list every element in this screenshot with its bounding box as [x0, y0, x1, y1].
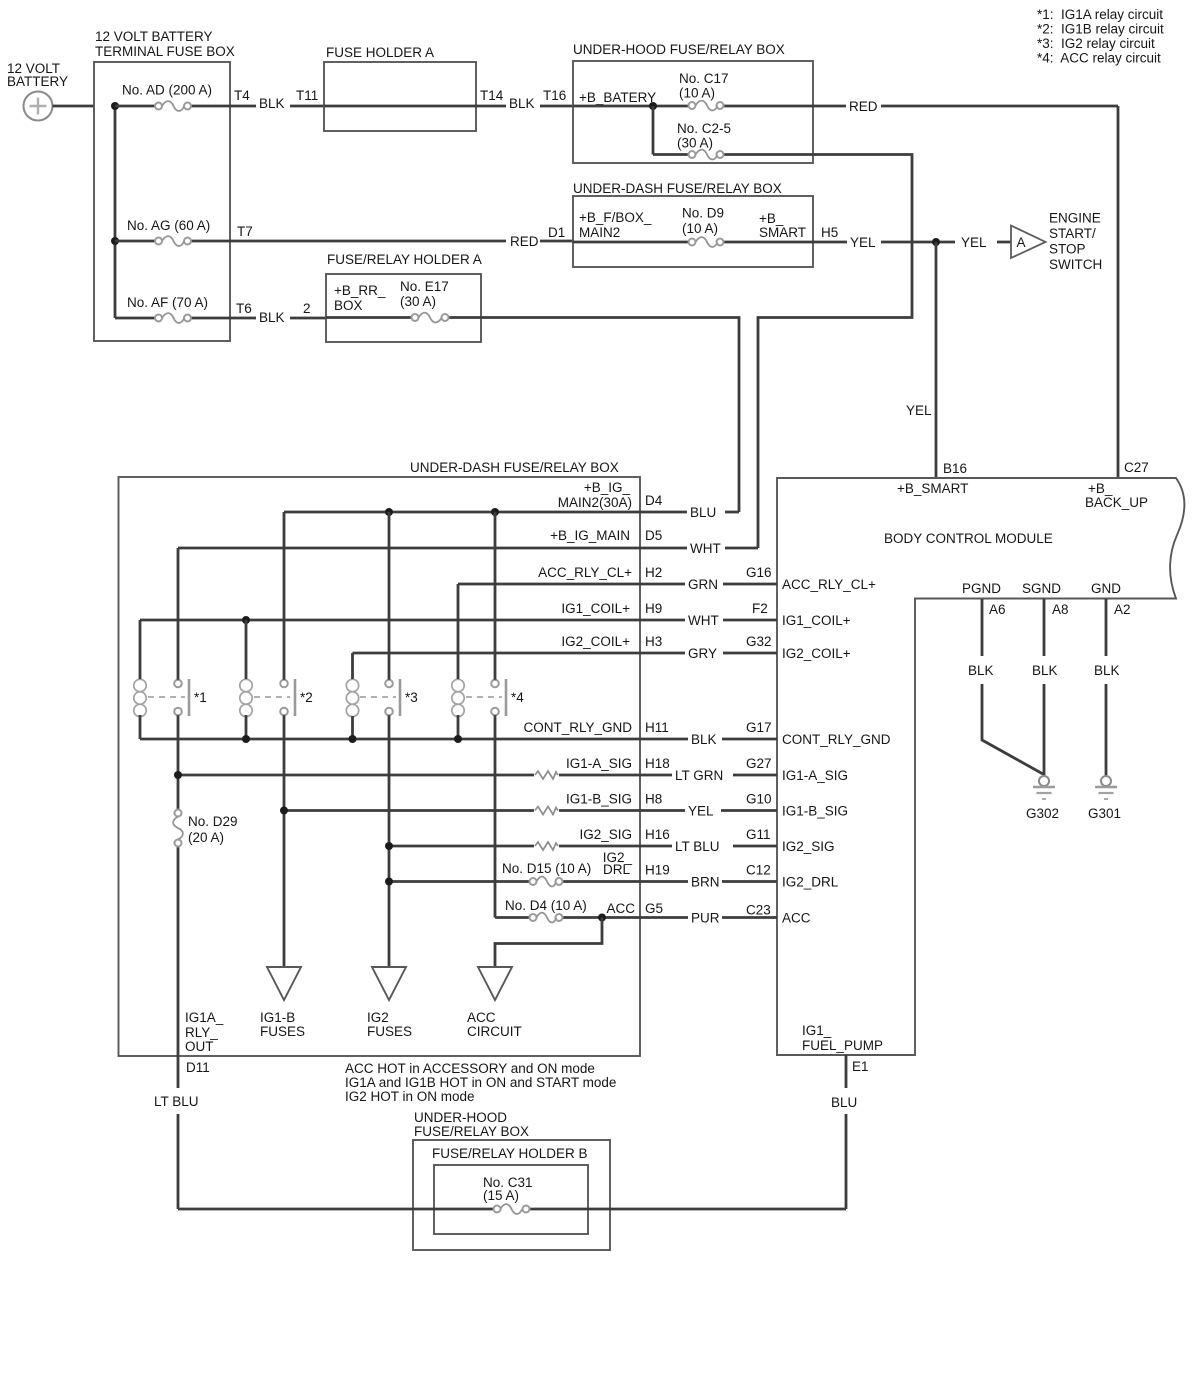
svg-text:D5: D5 [645, 528, 662, 543]
svg-text:GRY: GRY [688, 646, 717, 661]
wire relay2 switch bus [283, 512, 286, 967]
svg-text:IG1-B: IG1-B [260, 1010, 295, 1025]
svg-text:ACC: ACC [467, 1010, 496, 1025]
wire H3 row [353, 652, 778, 655]
wire H19 row [389, 880, 777, 883]
svg-text:B16: B16 [943, 461, 967, 476]
svg-text:BLU: BLU [831, 1095, 857, 1110]
svg-text:A8: A8 [1052, 602, 1069, 617]
net IG1-B FUSES label [260, 1010, 305, 1039]
fuse holder A box [324, 62, 476, 131]
svg-text:D11: D11 [186, 1060, 210, 1075]
node H8 relay2 bus [280, 807, 288, 815]
svg-text:CONT_RLY_GND: CONT_RLY_GND [782, 732, 891, 747]
svg-text:D4: D4 [645, 493, 663, 508]
fuse C17 value label [679, 71, 729, 101]
svg-text:YEL: YEL [688, 804, 714, 819]
wire D4 row [284, 511, 739, 514]
svg-text:IG2 HOT in ON mode: IG2 HOT in ON mode [345, 1089, 475, 1104]
svg-text:A2: A2 [1114, 602, 1131, 617]
svg-text:No. C2-5: No. C2-5 [677, 121, 731, 136]
svg-text:GRN: GRN [688, 577, 718, 592]
svg-text:T4: T4 [234, 88, 250, 103]
svg-text:CONT_RLY_GND: CONT_RLY_GND [523, 720, 632, 735]
svg-text:G5: G5 [645, 901, 663, 916]
svg-text:H18: H18 [645, 756, 670, 771]
legend note [1037, 7, 1164, 66]
relay *2 IG1B [240, 679, 313, 717]
svg-text:T7: T7 [237, 224, 253, 239]
wire T14 to T16 with BLK gap [476, 105, 573, 108]
wire E1 with BLU gap [845, 1055, 848, 1209]
under-dash fuse/relay box (main) [119, 477, 641, 1056]
resistor IG1-A_SIG [535, 771, 558, 779]
wire relay4 coil verticals [457, 584, 460, 739]
svg-text:*1: *1 [194, 690, 207, 705]
svg-text:H8: H8 [645, 792, 662, 807]
svg-text:(30 A): (30 A) [677, 136, 713, 151]
svg-text:A6: A6 [989, 602, 1006, 617]
svg-text:*4: *4 [511, 690, 524, 705]
svg-text:DRL: DRL [603, 862, 630, 877]
wire C2-5 output to D5 [758, 155, 912, 549]
svg-text:T16: T16 [543, 88, 566, 103]
svg-text:C23: C23 [746, 903, 771, 918]
svg-text:SWITCH: SWITCH [1049, 257, 1102, 272]
svg-text:T6: T6 [236, 301, 252, 316]
svg-text:FUSES: FUSES [367, 1024, 412, 1039]
svg-text:G302: G302 [1026, 806, 1059, 821]
wire H16 row [389, 845, 777, 848]
svg-text:IG2: IG2 [367, 1010, 389, 1025]
wire relay2 coil verticals [245, 620, 248, 739]
svg-text:LT BLU: LT BLU [675, 839, 720, 854]
under-dash fuse/relay box (upper) [573, 196, 813, 267]
wire GND A2 with BLK gap [1105, 599, 1108, 776]
node D4 relay3 [385, 508, 393, 516]
svg-text:T14: T14 [480, 88, 504, 103]
relay *1 IG1A [134, 679, 207, 717]
fuse C31 value label [483, 1175, 533, 1203]
note ACC HOT modes [345, 1061, 616, 1104]
fuse No. AF (70 A) [155, 313, 191, 323]
svg-text:12 VOLT BATTERY: 12 VOLT BATTERY [95, 29, 213, 44]
node H16 relay3 bus [385, 842, 393, 850]
svg-text:UNDER-HOOD FUSE/RELAY BOX: UNDER-HOOD FUSE/RELAY BOX [573, 42, 785, 57]
svg-text:+B_F/BOX_: +B_F/BOX_ [579, 210, 652, 225]
svg-text:*1: IG1A relay circuit: *1: IG1A relay circuit [1037, 7, 1163, 22]
svg-text:No. D29: No. D29 [188, 814, 238, 829]
svg-text:TERMINAL FUSE BOX: TERMINAL FUSE BOX [95, 44, 235, 59]
fuse C2-5 value label [677, 121, 731, 151]
node H11 relay4 [454, 735, 462, 743]
svg-text:G17: G17 [746, 720, 772, 735]
wire ACC branch to arrow [495, 918, 602, 968]
svg-text:+B_BATERY: +B_BATERY [579, 90, 656, 105]
wire relay1 switch bus [177, 548, 180, 1056]
svg-text:FUEL_PUMP: FUEL_PUMP [802, 1038, 883, 1053]
wire H18 row [178, 774, 777, 777]
wire relay1 coil verticals [139, 620, 142, 739]
svg-text:WHT: WHT [688, 613, 719, 628]
svg-text:LT GRN: LT GRN [675, 768, 723, 783]
wire T7 to D1 with RED gap [230, 240, 573, 243]
relay *4 ACC [452, 679, 524, 717]
fuse No. AD (200 A) [155, 101, 191, 111]
fuse D29 value label [188, 814, 238, 845]
svg-text:PUR: PUR [691, 911, 720, 926]
svg-text:UNDER-DASH FUSE/RELAY BOX: UNDER-DASH FUSE/RELAY BOX [410, 460, 619, 475]
svg-text:BLK: BLK [691, 732, 717, 747]
svg-text:BLK: BLK [1032, 663, 1058, 678]
12 volt battery terminal fuse box [94, 62, 230, 341]
wire PGND A6 with BLK gap [982, 599, 1043, 774]
svg-text:YEL: YEL [906, 403, 932, 418]
svg-text:No. D4 (10 A): No. D4 (10 A) [505, 898, 587, 913]
body control module outline [777, 478, 1184, 1055]
svg-text:MAIN2: MAIN2 [579, 225, 620, 240]
svg-text:D1: D1 [548, 225, 565, 240]
wire E17 row [326, 316, 481, 319]
svg-text:G10: G10 [746, 792, 772, 807]
node YEL junction [932, 238, 940, 246]
wire T4 to T11 with BLK gap [230, 105, 324, 108]
svg-text:H9: H9 [645, 601, 662, 616]
svg-text:+B_IG_: +B_IG_ [584, 480, 631, 495]
wire +B_BATERY row [573, 105, 813, 108]
svg-text:ENGINE: ENGINE [1049, 211, 1101, 226]
svg-text:H11: H11 [645, 720, 669, 735]
svg-text:GND: GND [1091, 581, 1121, 596]
wire H5 YEL to switch [813, 241, 1011, 244]
svg-text:H3: H3 [645, 634, 662, 649]
svg-text:*4: ACC relay circuit: *4: ACC relay circuit [1037, 51, 1161, 66]
svg-text:IG1-B_SIG: IG1-B_SIG [782, 804, 848, 819]
svg-text:+B_IG_MAIN: +B_IG_MAIN [550, 528, 630, 543]
fuse D9 value label [682, 206, 724, 237]
svg-text:IG2_DRL: IG2_DRL [782, 875, 839, 890]
svg-text:BLK: BLK [1094, 663, 1120, 678]
svg-text:START/: START/ [1049, 226, 1096, 241]
svg-text:IG1_COIL+: IG1_COIL+ [782, 613, 851, 628]
net +B_IG_MAIN2 label [558, 480, 632, 510]
svg-text:No. E17: No. E17 [400, 279, 449, 294]
svg-text:IG2_SIG: IG2_SIG [579, 827, 632, 842]
svg-text:CIRCUIT: CIRCUIT [467, 1024, 522, 1039]
resistor IG2_SIG [535, 842, 558, 850]
wire D9 row [573, 241, 813, 244]
svg-text:H5: H5 [821, 225, 838, 240]
relay *3 IG2 [346, 679, 417, 717]
svg-text:IG1-A_SIG: IG1-A_SIG [566, 756, 632, 771]
svg-text:G27: G27 [746, 756, 772, 771]
svg-text:No. D9: No. D9 [682, 206, 724, 221]
svg-text:E1: E1 [852, 1059, 869, 1074]
node battery bus mid [111, 237, 119, 245]
ground G301 [1088, 776, 1121, 821]
svg-text:IG1A and IG1B HOT in ON and ST: IG1A and IG1B HOT in ON and START mode [345, 1075, 616, 1090]
arrow IG1-B fuses [267, 967, 301, 1000]
svg-text:ACC: ACC [606, 901, 635, 916]
svg-text:FUSE HOLDER A: FUSE HOLDER A [326, 45, 434, 60]
svg-text:IG1-B_SIG: IG1-B_SIG [566, 792, 632, 807]
svg-text:(10 A): (10 A) [679, 86, 715, 101]
svg-text:BOX: BOX [334, 298, 363, 313]
svg-text:H2: H2 [645, 565, 662, 580]
wire fuel pump bottom [178, 1208, 846, 1211]
svg-text:STOP: STOP [1049, 242, 1086, 257]
svg-text:SGND: SGND [1022, 581, 1061, 596]
svg-text:IG1A_: IG1A_ [185, 1010, 224, 1025]
svg-text:BATTERY: BATTERY [7, 74, 68, 89]
svg-text:2: 2 [303, 301, 311, 316]
svg-text:H16: H16 [645, 827, 670, 842]
svg-text:F2: F2 [752, 601, 768, 616]
wire C17 to RED gap [813, 105, 1118, 108]
svg-text:ACC_RLY_CL+: ACC_RLY_CL+ [782, 577, 876, 592]
svg-text:RED: RED [510, 234, 539, 249]
resistor IG1-B_SIG [535, 807, 558, 815]
wire D5 row [178, 547, 758, 550]
node D4 relay4 [491, 508, 499, 516]
svg-text:BLK: BLK [968, 663, 994, 678]
svg-text:No. C17: No. C17 [679, 71, 729, 86]
svg-text:+B_: +B_ [759, 211, 784, 226]
svg-text:IG2_SIG: IG2_SIG [782, 839, 835, 854]
svg-text:BODY CONTROL MODULE: BODY CONTROL MODULE [884, 531, 1053, 546]
svg-text:C27: C27 [1124, 460, 1149, 475]
svg-text:FUSES: FUSES [260, 1024, 305, 1039]
12 volt battery terminal fuse box label [95, 29, 235, 59]
svg-text:RLY_: RLY_ [185, 1025, 218, 1040]
node H9 relay2 coil [242, 616, 250, 624]
svg-text:*2: IG1B relay circuit: *2: IG1B relay circuit [1037, 22, 1164, 37]
node H18 relay1 bus [174, 771, 182, 779]
node H19 relay3 bus [385, 878, 393, 886]
svg-text:ACC: ACC [782, 911, 811, 926]
net ACC CIRCUIT label [467, 1010, 522, 1039]
node H11 relay2 [242, 735, 250, 743]
svg-text:G32: G32 [746, 634, 772, 649]
svg-text:(30 A): (30 A) [400, 294, 436, 309]
svg-text:*3: IG2 relay circuit: *3: IG2 relay circuit [1037, 36, 1155, 51]
net +B_SMART [759, 211, 806, 240]
svg-text:BACK_UP: BACK_UP [1085, 495, 1148, 510]
fuse No. E17 (30 A) [412, 313, 449, 323]
wire H8 row [284, 809, 777, 812]
fuse No. C2-5 (30 A) [689, 150, 724, 160]
net +B_F/BOX_MAIN2 [579, 210, 652, 240]
svg-text:RED: RED [849, 99, 878, 114]
wire relay3 switch bus [388, 512, 391, 967]
engine start/stop switch label [1049, 211, 1102, 273]
wire RED vertical to C27 [1117, 106, 1120, 477]
net +B_RR_BOX [334, 283, 386, 313]
svg-text:UNDER-HOOD: UNDER-HOOD [414, 1110, 507, 1125]
svg-text:YEL: YEL [961, 235, 987, 250]
net IG2_DRL label [603, 850, 633, 877]
svg-text:T11: T11 [296, 88, 318, 103]
svg-text:+B_RR_: +B_RR_ [334, 283, 386, 298]
wire H9 row [140, 619, 777, 622]
under-hood fuse/relay box (lower) [413, 1140, 610, 1250]
svg-text:BLK: BLK [509, 96, 535, 111]
node H11 relay3 [349, 735, 357, 743]
under-hood fuse/relay box (lower) label [414, 1110, 529, 1139]
arrow ACC circuit [478, 967, 512, 1000]
svg-text:SMART: SMART [759, 225, 806, 240]
svg-text:G11: G11 [746, 827, 771, 842]
node battery bus top [111, 102, 119, 110]
fuse E17 value label [400, 279, 449, 309]
wire relay3 coil verticals [351, 653, 354, 739]
under-hood fuse/relay box [573, 61, 813, 163]
svg-text:MAIN2(30A): MAIN2(30A) [558, 495, 632, 510]
fuse No. AG (60 A) [155, 236, 191, 246]
fuse/relay holder B box [434, 1165, 588, 1234]
svg-text:A: A [1017, 235, 1026, 250]
battery B1 symbol [24, 92, 53, 121]
node ACC branch [598, 914, 606, 922]
svg-text:*3: *3 [405, 690, 418, 705]
node +B_BATERY junction [649, 102, 657, 110]
wire battery bus vertical [114, 106, 117, 318]
svg-text:No. AD (200 A): No. AD (200 A) [122, 83, 212, 98]
wire E17 output to D4 [481, 318, 739, 513]
wire battery to terminal fuse box [53, 105, 95, 108]
svg-text:BLK: BLK [259, 96, 285, 111]
svg-text:BRN: BRN [691, 875, 720, 890]
svg-text:G301: G301 [1088, 806, 1121, 821]
svg-text:C12: C12 [746, 863, 771, 878]
wire fuse AG row [115, 240, 230, 243]
svg-text:BLU: BLU [690, 505, 716, 520]
svg-text:PGND: PGND [962, 581, 1001, 596]
svg-text:*2: *2 [300, 690, 313, 705]
wire G5 row [495, 916, 777, 919]
wire fuse AF row [115, 317, 230, 320]
svg-text:IG1-A_SIG: IG1-A_SIG [782, 768, 848, 783]
connector A engine start/stop switch [1011, 226, 1046, 259]
svg-text:IG2_COIL+: IG2_COIL+ [561, 634, 630, 649]
svg-text:IG2_COIL+: IG2_COIL+ [782, 646, 851, 661]
svg-text:No. AF (70 A): No. AF (70 A) [127, 295, 208, 310]
ground G302 [1026, 776, 1059, 821]
fuse No. C31 (15 A) [494, 1204, 530, 1214]
wire relay4 switch bus [494, 512, 497, 918]
wire YEL vertical to B16 [935, 242, 938, 477]
svg-text:FUSE/RELAY BOX: FUSE/RELAY BOX [414, 1124, 529, 1139]
svg-text:OUT: OUT [185, 1039, 214, 1054]
svg-text:YEL: YEL [850, 235, 876, 250]
net IG1_FUEL_PUMP [802, 1023, 883, 1053]
fuse No. D29 (20 A) vertical [173, 810, 183, 847]
fuse/relay holder A box [326, 274, 481, 342]
svg-text:ACC HOT in ACCESSORY and ON mo: ACC HOT in ACCESSORY and ON mode [345, 1061, 595, 1076]
svg-text:H19: H19 [645, 863, 670, 878]
wire T6 to holder A with BLK gap [230, 317, 326, 320]
arrow IG2 fuses [372, 967, 406, 1000]
fuse No. D15 (10 A) [530, 877, 563, 887]
battery B1 label [7, 61, 68, 89]
wire C2-5 branch vertical [653, 106, 813, 155]
svg-text:(15 A): (15 A) [483, 1188, 519, 1203]
svg-text:ACC_RLY_CL+: ACC_RLY_CL+ [538, 565, 632, 580]
wire H2 row [458, 583, 777, 586]
svg-text:G16: G16 [746, 565, 772, 580]
net IG1A_RLY_OUT label [185, 1010, 224, 1054]
svg-text:FUSE/RELAY HOLDER A: FUSE/RELAY HOLDER A [327, 252, 482, 267]
svg-text:IG1_COIL+: IG1_COIL+ [561, 601, 630, 616]
svg-text:No. D15 (10 A): No. D15 (10 A) [502, 861, 591, 876]
wire through fuse holder A [324, 105, 476, 108]
fuse No. D9 (10 A) [689, 237, 724, 247]
svg-text:WHT: WHT [690, 541, 721, 556]
svg-text:BLK: BLK [259, 310, 285, 325]
svg-text:+B_: +B_ [1088, 481, 1113, 496]
svg-text:+B_SMART: +B_SMART [897, 481, 968, 496]
svg-text:(10 A): (10 A) [682, 221, 718, 236]
wire SGND A8 with BLK gap [1043, 599, 1046, 776]
wire fuse AD row [115, 105, 230, 108]
net +B_BACK_UP BCM [1085, 481, 1148, 510]
svg-text:UNDER-DASH FUSE/RELAY BOX: UNDER-DASH FUSE/RELAY BOX [573, 181, 782, 196]
fuse No. D4 (10 A) [530, 913, 563, 923]
net IG2 FUSES label [367, 1010, 412, 1039]
svg-text:No. AG (60 A): No. AG (60 A) [127, 218, 210, 233]
svg-text:IG1_: IG1_ [802, 1023, 832, 1038]
wire H11 row [140, 738, 777, 741]
fuse No. C17 (10 A) [689, 101, 724, 111]
svg-text:FUSE/RELAY HOLDER B: FUSE/RELAY HOLDER B [432, 1146, 588, 1161]
svg-text:LT BLU: LT BLU [154, 1094, 199, 1109]
svg-text:(20 A): (20 A) [188, 830, 224, 845]
wire D11 with LT BLU gap [177, 1056, 180, 1209]
